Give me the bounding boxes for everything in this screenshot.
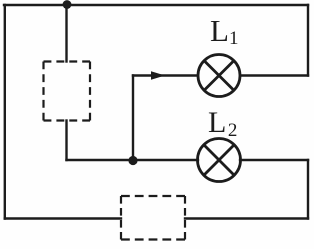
wire L1 right lead [240,74,308,76]
wire branch horizontal to L1 [133,74,198,76]
wire left vertical [4,5,6,219]
wire bottom-left horizontal [5,217,121,219]
svg-text:L2: L2 [208,106,237,141]
wire right-upper vertical [307,5,309,76]
arrow current direction to L1 [151,71,165,79]
node junction dot top [63,0,72,9]
wire top horizontal [4,4,308,6]
wire bottom-right horizontal [185,217,308,219]
svg-text:L1: L1 [210,13,238,49]
wire L2 right lead [240,159,308,161]
wire leg above left dashed box [65,5,67,62]
wire leg below left dashed box [65,121,67,161]
wire right-lower vertical [307,160,309,219]
lamp L2 [198,139,241,182]
wire L2 left lead / middle horizontal [67,159,199,161]
dashed component box left [44,62,91,121]
lamp L1 [198,55,240,97]
wire branch vertical to L1 [132,76,134,161]
dashed component box bottom [121,196,185,240]
node junction dot middle [128,156,137,165]
